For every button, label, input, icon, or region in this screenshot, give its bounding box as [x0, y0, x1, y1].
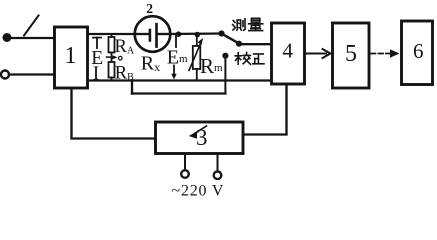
量	[249, 18, 263, 30]
resistor RB	[109, 62, 135, 84]
wire calibrate contact down	[224, 56, 226, 94]
wire bottom input to box 1	[9, 73, 54, 75]
wiper tap between RA and RB	[107, 53, 123, 63]
resistor RA	[109, 34, 135, 57]
svg-text:1: 1	[64, 42, 76, 69]
jog bus A to bus B	[131, 81, 133, 94]
wire Em stub	[175, 35, 177, 47]
switch pole dot	[236, 41, 242, 47]
label 测量 (measure)	[233, 18, 263, 30]
arrow E up (annotation)	[93, 38, 101, 48]
arrow Em down	[171, 66, 176, 80]
block 3 (power supply)	[156, 122, 244, 154]
svg-text:2: 2	[146, 1, 153, 16]
wire top bus right (galvanometer to switch)	[169, 32, 222, 35]
正	[253, 54, 264, 64]
galvanometer 2	[135, 16, 171, 52]
wire box1 bottom to box3	[72, 89, 156, 139]
node Em junction dot	[176, 31, 182, 37]
block 6	[402, 21, 433, 85]
wire box4 bottom to box3 right	[243, 84, 287, 135]
wire top input to box 1	[7, 37, 54, 39]
测	[233, 19, 245, 31]
block 1	[55, 27, 88, 88]
wire switch pole to box 4	[239, 43, 272, 45]
mains terminal right	[214, 154, 222, 179]
校	[235, 52, 250, 64]
contact dot (calibrate)	[222, 53, 228, 59]
adjust arrow on 3	[189, 126, 207, 139]
node Rm junction dot	[195, 32, 201, 38]
switch lever S	[24, 16, 39, 36]
svg-text:4: 4	[283, 38, 294, 62]
input terminal bottom (open)	[1, 71, 9, 79]
svg-text:5: 5	[345, 41, 357, 67]
svg-text:~220 V: ~220 V	[172, 182, 225, 197]
dashed arrow box5 to box6	[371, 49, 400, 58]
label 校正 (calibrate)	[235, 52, 264, 64]
block 5	[333, 23, 370, 88]
rheostat Rm	[189, 35, 203, 81]
bus B	[132, 92, 225, 94]
arrow box4 to box5	[305, 49, 331, 58]
wire top bus left (box1 to galvanometer)	[88, 33, 136, 35]
mains terminal left	[181, 154, 189, 178]
bus A (bottom measuring bus)	[88, 79, 272, 81]
block 4	[272, 23, 305, 84]
svg-text:6: 6	[413, 39, 424, 63]
switch pivot dot (to measuring bus)	[218, 30, 224, 36]
switch blade	[222, 34, 240, 44]
input terminal top (filled)	[3, 33, 12, 42]
